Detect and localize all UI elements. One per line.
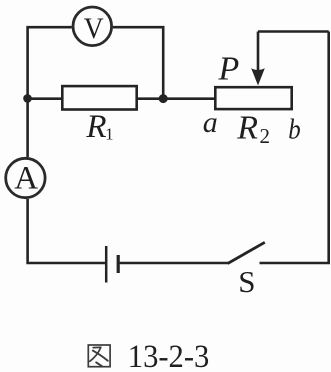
svg-text:A: A [14,160,38,196]
svg-text:P: P [218,51,240,88]
battery short plate [117,255,120,273]
svg-text:b: b [288,113,300,145]
wire: left vertical below ammeter + bottom-left horizontal [28,199,105,263]
wire: resistor R1 to rheostat R2 [137,97,216,100]
wire: voltmeter right to corner, down to junction [113,27,164,98]
caption glyph 图 [88,345,110,367]
wire: switch to bottom-right corner + right vertical [260,32,329,264]
slider arrow P (wiper) [251,32,265,86]
junction node right [159,94,168,103]
junction node left [23,94,32,103]
wire: left vertical + top-left horizontal [28,27,72,157]
ammeter A [6,158,45,197]
wire: slider top horizontal [258,30,329,33]
wire: battery to switch [119,262,228,265]
resistor R1 [62,86,136,109]
svg-text:13-2-3: 13-2-3 [128,339,210,372]
switch S blade [228,242,265,263]
svg-text:V: V [84,12,104,45]
wire: node to resistor R1 [28,97,63,100]
svg-text:S: S [238,264,255,299]
rheostat R2 [215,87,291,109]
battery long plate [105,246,108,283]
svg-text:a: a [203,106,218,139]
voltmeter V [73,7,112,46]
